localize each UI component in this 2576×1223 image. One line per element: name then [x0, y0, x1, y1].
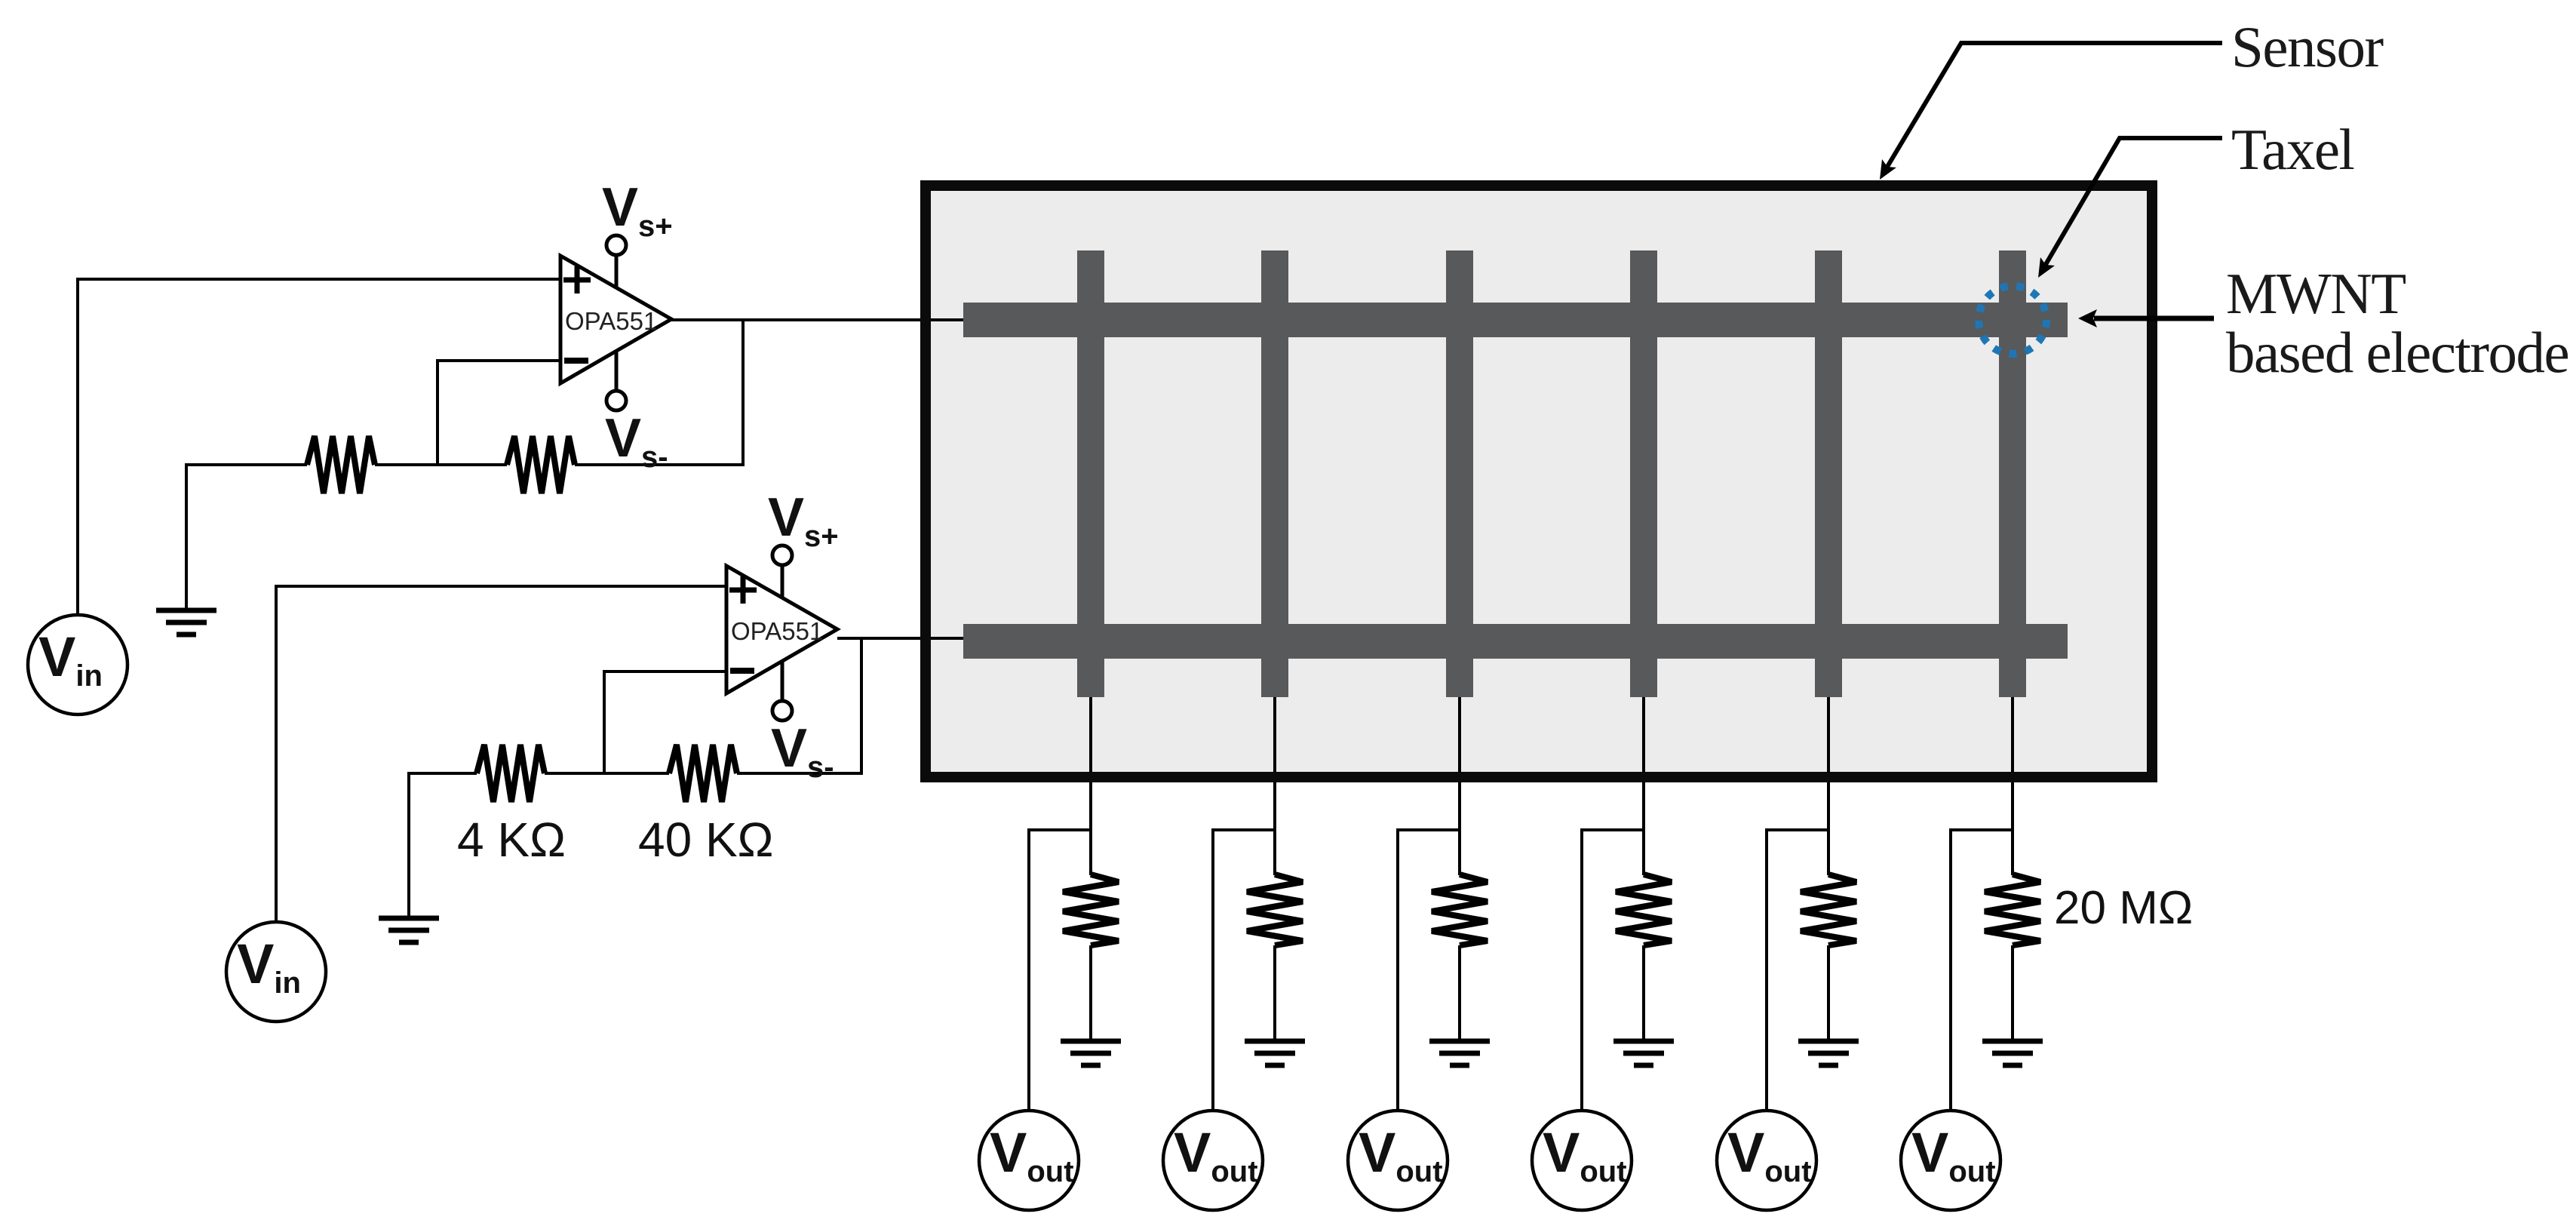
wire column 4 to Vout	[1580, 828, 1583, 1110]
meter Vout 5	[1717, 1111, 1816, 1210]
column electrode bar 3	[1446, 250, 1473, 697]
wire column 2 to Vout	[1211, 828, 1214, 1110]
meter Vout 4	[1532, 1111, 1632, 1210]
column electrode bar 4	[1630, 250, 1657, 697]
resistor R10 20M column 6	[1985, 874, 2040, 945]
wire column 1 lead-out	[1089, 694, 1092, 875]
wire column 5 branch	[1767, 828, 1828, 831]
wire column 3 to Vout	[1396, 828, 1399, 1110]
wire column 2 lead-out	[1273, 694, 1276, 875]
Taxel leader arrow	[2038, 138, 2222, 278]
op-amp U2 OPA551	[726, 566, 837, 693]
column electrode bar 1	[1077, 250, 1104, 697]
wire column 4 lead-out	[1642, 694, 1645, 875]
svg-text:OPA551: OPA551	[565, 307, 657, 335]
wire column 3 lead-out	[1458, 694, 1461, 875]
Sensor leader arrow	[1880, 43, 2222, 180]
wire column 6 lead-out	[2011, 694, 2014, 875]
wire ground to R1	[186, 463, 307, 466]
op-amp U1 OPA551	[560, 256, 671, 383]
wire column 5 to Vout	[1765, 828, 1768, 1110]
wire column 1 to Vout	[1027, 828, 1030, 1110]
ground G1	[156, 610, 216, 635]
wire column 2 resistor to ground	[1273, 945, 1276, 1040]
ground G6	[1613, 1041, 1674, 1065]
row electrode bar 1 (MWNT)	[963, 303, 2068, 337]
sensor body fill	[920, 180, 2157, 782]
wire column 1 branch	[1029, 828, 1091, 831]
ground G2	[379, 918, 439, 942]
resistor R5 20M column 1	[1063, 874, 1119, 945]
wire ground to R3	[409, 772, 477, 775]
ground G8	[1982, 1041, 2043, 1065]
wire R4 to feedback tap	[737, 772, 861, 775]
meter Vout 6	[1901, 1111, 2000, 1210]
wire column 3 branch	[1398, 828, 1460, 831]
wire U2 - to feedback node	[603, 670, 606, 773]
MWNT electrode leader arrow	[2078, 309, 2214, 327]
meter Vout 3	[1348, 1111, 1448, 1210]
wire U1 feedback vertical	[741, 320, 745, 466]
source Vin 2	[226, 922, 326, 1022]
column electrode bar 5	[1815, 250, 1842, 697]
wire Vin1 rail	[76, 278, 79, 615]
svg-text:20 MΩ: 20 MΩ	[2054, 882, 2193, 934]
row electrode bar 2 (MWNT)	[963, 624, 2068, 659]
svg-text:OPA551: OPA551	[731, 617, 823, 645]
taxel highlight circle	[1979, 286, 2046, 354]
wire column 4 resistor to ground	[1642, 945, 1645, 1040]
resistor R3 4K	[477, 745, 545, 802]
wire U1 - to feedback node	[436, 359, 439, 465]
svg-text:Taxel: Taxel	[2231, 117, 2354, 182]
resistor R6 20M column 2	[1247, 874, 1303, 945]
ground G3	[1061, 1041, 1121, 1065]
wire column 3 resistor to ground	[1458, 945, 1461, 1040]
sensor outline	[926, 186, 2152, 777]
wire column 5 resistor to ground	[1827, 945, 1830, 1040]
wire column 1 resistor to ground	[1089, 945, 1092, 1040]
wire U2 - input	[604, 670, 726, 673]
ground G7	[1798, 1041, 1859, 1065]
U1 V s+ supply pin	[606, 235, 626, 287]
wire Vin2 rail	[275, 585, 278, 922]
wire column 2 branch	[1213, 828, 1275, 831]
resistor R7 20M column 3	[1432, 874, 1488, 945]
resistor R4 40K	[669, 745, 737, 802]
meter Vout 2	[1163, 1111, 1263, 1210]
wire U2 output to row electrode 2	[837, 637, 963, 640]
U2 V s- supply pin	[772, 661, 792, 721]
wire column 6 to Vout	[1949, 828, 1952, 1110]
resistor R9 20M column 5	[1801, 874, 1856, 945]
U2 V s+ supply pin	[772, 545, 792, 598]
wire column 4 branch	[1582, 828, 1644, 831]
wire U1 - input	[438, 359, 560, 362]
wire R1 to R2 node A	[375, 463, 507, 466]
wire Vin1 to U1 + input	[78, 278, 560, 281]
wire column 5 lead-out	[1827, 694, 1830, 875]
column electrode bar 6	[1999, 250, 2026, 697]
resistor R1 4K (U1 input)	[307, 436, 375, 493]
meter Vout 1	[979, 1111, 1079, 1210]
U1 V s- supply pin	[606, 351, 626, 410]
column electrode bar 2	[1261, 250, 1288, 697]
svg-text:based electrode: based electrode	[2226, 320, 2568, 385]
wire column 6 resistor to ground	[2011, 945, 2014, 1040]
wire ground stem 2	[407, 772, 410, 916]
wire U1 output to row electrode 1	[671, 318, 963, 321]
svg-text:4 KΩ: 4 KΩ	[457, 813, 566, 867]
svg-text:40 KΩ: 40 KΩ	[638, 813, 774, 867]
wire column 6 branch	[1951, 828, 2013, 831]
wire ground stem 1	[185, 463, 188, 608]
svg-text:Sensor: Sensor	[2231, 14, 2383, 79]
wire Vin2 to U2 + input	[276, 585, 726, 588]
wire U2 feedback vertical	[860, 638, 863, 775]
wire R2 to feedback tap	[575, 463, 743, 466]
wire R3 to R4 node B	[545, 772, 669, 775]
ground G5	[1429, 1041, 1490, 1065]
svg-text:MWNT: MWNT	[2226, 261, 2406, 326]
source Vin 1	[28, 615, 127, 714]
resistor R2 40K (U1 feedback)	[507, 436, 575, 493]
ground G4	[1245, 1041, 1305, 1065]
resistor R8 20M column 4	[1616, 874, 1672, 945]
